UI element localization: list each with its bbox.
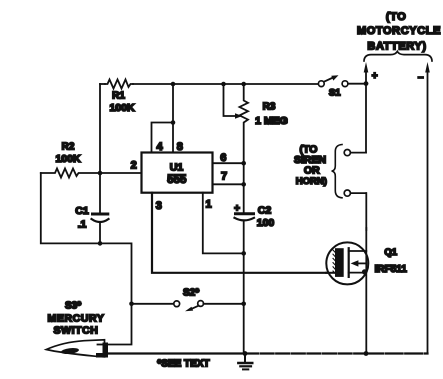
wire pin1 node to S2 node <box>243 253 245 303</box>
battery brace <box>364 51 432 61</box>
capacitor C2 <box>236 212 254 215</box>
wiper arrowhead <box>235 113 242 119</box>
resistor R1 <box>105 80 133 89</box>
svg-text:S1: S1 <box>329 88 341 99</box>
node pin8 rail junction <box>171 82 176 87</box>
svg-text:.1: .1 <box>78 219 87 231</box>
svg-text:S3*: S3* <box>65 301 81 312</box>
svg-text:OR: OR <box>304 164 320 176</box>
wire battery+ down to siren top <box>365 84 367 153</box>
node pin 7 junction <box>241 182 246 187</box>
wire bottom ground rail <box>107 352 245 354</box>
wire S2 node to ground rail <box>243 304 245 354</box>
svg-text:MERCURY: MERCURY <box>48 313 105 325</box>
IC U1 555 timer <box>142 153 213 193</box>
capacitor C1 <box>99 173 101 213</box>
node R2/C1/pin2 junction <box>98 171 103 176</box>
transistor Q1 IRF511 MOSFET <box>326 242 368 284</box>
wire pin 6 <box>213 162 244 164</box>
drain stub <box>349 250 367 252</box>
wire top rail left segment <box>100 83 105 85</box>
svg-text:(TO: (TO <box>386 11 407 23</box>
mercury blob <box>61 347 80 355</box>
resistor R3 (1 MEG pot) <box>240 84 249 162</box>
wire top rail to S1 <box>133 83 319 85</box>
svg-text:1: 1 <box>206 199 212 211</box>
wire siren bottom to drain <box>365 193 367 230</box>
wire pin 2 <box>100 172 142 174</box>
wire pin 4 connector <box>152 123 174 153</box>
source stub <box>349 272 365 274</box>
node MOSFET source on rail <box>364 351 369 356</box>
wire C1 bottom to S3 branch <box>100 243 132 303</box>
siren terminal top <box>344 150 350 156</box>
node pin 6 junction <box>241 161 246 166</box>
node ground junction <box>243 351 248 356</box>
svg-text:Q1: Q1 <box>384 247 397 258</box>
node wiper rail junction <box>221 82 226 87</box>
wire drain-source vertical <box>365 228 367 354</box>
wire gate lead inside package <box>326 272 335 274</box>
svg-text:HORN): HORN) <box>296 176 327 187</box>
switch S1 <box>318 81 324 87</box>
svg-text:+: + <box>372 71 378 82</box>
svg-text:100K: 100K <box>109 102 135 114</box>
svg-text:555: 555 <box>167 174 187 186</box>
node pin4/8 tie <box>171 120 176 125</box>
svg-text:MOTORCYCLE: MOTORCYCLE <box>357 25 441 37</box>
node R3 rail junction <box>241 82 246 87</box>
svg-text:C1: C1 <box>75 205 89 217</box>
wire pin 8 vertical <box>172 84 174 153</box>
svg-text:–: – <box>418 72 424 83</box>
svg-text:C2: C2 <box>258 205 272 217</box>
channel bar <box>348 248 350 277</box>
svg-text:SWITCH: SWITCH <box>53 325 98 337</box>
switch S2 <box>129 302 134 307</box>
node S1/battery+ junction <box>364 81 369 86</box>
siren brace <box>332 145 342 198</box>
gate bar <box>335 248 344 277</box>
svg-text:100: 100 <box>257 217 275 229</box>
wire pin 7 <box>213 183 244 185</box>
bulb electrode block <box>103 343 109 358</box>
wire pin 1 <box>203 193 244 254</box>
bulb top electrode <box>98 344 106 346</box>
wire S3 top terminal <box>105 304 132 345</box>
svg-text:+: + <box>234 204 240 215</box>
battery + lead with arrow <box>365 72 367 84</box>
svg-text:3: 3 <box>156 200 162 212</box>
svg-text:R3: R3 <box>263 102 276 113</box>
resistor R2 <box>41 169 100 178</box>
svg-text:*SEE TEXT: *SEE TEXT <box>157 359 209 370</box>
svg-text:U1: U1 <box>170 162 184 174</box>
svg-text:100K: 100K <box>55 153 81 165</box>
svg-text:8: 8 <box>177 141 183 153</box>
svg-text:4: 4 <box>156 141 163 153</box>
mercury bulb outline <box>46 340 104 357</box>
wire R3 wiper arm <box>224 84 237 116</box>
wire left rail down from corner <box>99 84 101 173</box>
svg-text:2: 2 <box>131 160 137 172</box>
svg-text:1 MEG: 1 MEG <box>255 115 288 127</box>
wire pin 3 to gate <box>152 193 335 273</box>
svg-text:BATTERY): BATTERY) <box>367 41 426 53</box>
svg-text:R2: R2 <box>62 142 75 153</box>
node C1 bottom junction <box>98 241 103 246</box>
svg-text:R1: R1 <box>112 91 125 102</box>
wire node 6/7 to C2 <box>243 163 245 212</box>
battery - lead with arrow (right rail) <box>427 72 429 354</box>
node pin 1 junction <box>241 251 246 256</box>
siren terminal bottom <box>344 190 350 196</box>
body arrow <box>351 260 359 266</box>
svg-text:S2*: S2* <box>183 288 199 299</box>
ground <box>244 354 246 363</box>
wire C2 bottom to pin1 node <box>243 222 245 253</box>
wire R2 left leg <box>41 173 100 243</box>
node source junction <box>362 269 367 274</box>
svg-text:7: 7 <box>221 171 227 183</box>
svg-text:IRF511: IRF511 <box>375 264 408 275</box>
